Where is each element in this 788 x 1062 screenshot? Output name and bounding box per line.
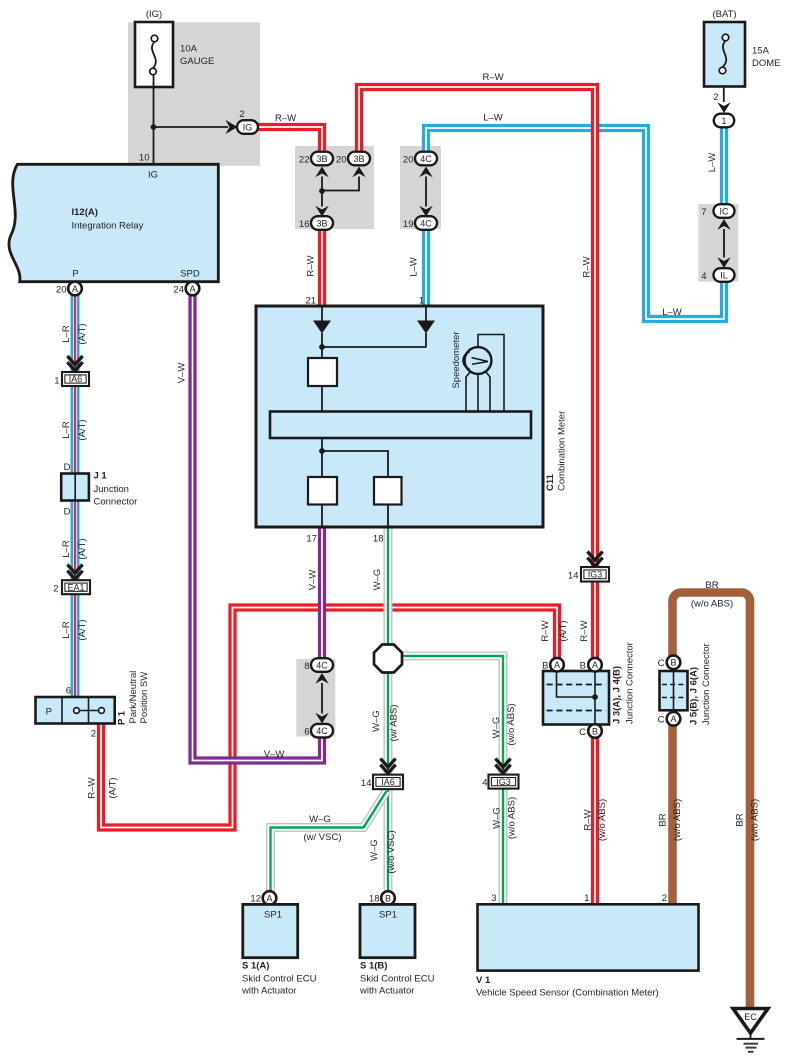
- svg-text:Connector: Connector: [94, 497, 138, 508]
- connector EA1 pin 2: [62, 580, 90, 594]
- svg-text:IG3: IG3: [496, 777, 511, 787]
- svg-text:B: B: [580, 661, 586, 672]
- pin C A bottom: [667, 712, 681, 726]
- connector IG3 pin 4: [489, 775, 519, 789]
- svg-text:R–W: R–W: [583, 809, 594, 830]
- svg-text:Position SW: Position SW: [139, 672, 150, 724]
- svg-text:2: 2: [713, 92, 718, 103]
- svg-text:SPD: SPD: [180, 269, 200, 280]
- svg-text:12: 12: [250, 894, 261, 905]
- wire W-G octagon right to IG3-4 to V1 pin 3: [398, 656, 503, 906]
- svg-text:DOME: DOME: [752, 58, 781, 69]
- svg-text:C: C: [658, 658, 665, 669]
- svg-text:C11: C11: [545, 473, 556, 491]
- connector 4C mid arrows: [315, 673, 328, 724]
- svg-text:1: 1: [721, 116, 726, 126]
- svg-text:IG: IG: [148, 170, 158, 181]
- svg-text:V 1: V 1: [476, 975, 491, 986]
- svg-text:20: 20: [336, 155, 347, 166]
- node 1 oval: [714, 114, 734, 128]
- svg-text:(A/T): (A/T): [77, 419, 88, 440]
- svg-text:4C: 4C: [316, 660, 328, 670]
- svg-text:1: 1: [419, 296, 424, 307]
- svg-text:J 5(B), J 6(A): J 5(B), J 6(A): [689, 667, 700, 725]
- relay pin 20 A: [68, 282, 82, 296]
- svg-text:GAUGE: GAUGE: [180, 56, 214, 67]
- svg-text:R–W: R–W: [540, 620, 551, 641]
- svg-text:(w/o ABS): (w/o ABS): [672, 799, 683, 841]
- svg-text:W–G: W–G: [369, 839, 380, 861]
- svg-text:20: 20: [403, 155, 414, 166]
- junction connector J1: [61, 474, 89, 501]
- svg-text:1: 1: [54, 376, 59, 387]
- svg-text:(w/o VSC): (w/o VSC): [386, 830, 397, 873]
- svg-text:P: P: [46, 707, 52, 718]
- svg-text:14: 14: [568, 571, 579, 582]
- svg-text:R–W: R–W: [275, 113, 296, 124]
- svg-text:C: C: [579, 727, 586, 738]
- connector panel 3B background: [295, 146, 374, 229]
- svg-text:P: P: [72, 269, 78, 280]
- svg-text:J 1: J 1: [94, 471, 108, 482]
- svg-text:SP1: SP1: [264, 910, 282, 921]
- svg-text:4: 4: [482, 778, 487, 789]
- svg-text:Junction: Junction: [94, 484, 129, 495]
- diode symbol at pin 1: [417, 306, 435, 348]
- connector IC/IL arrows: [717, 219, 730, 268]
- svg-text:A: A: [554, 660, 560, 670]
- svg-text:L–W: L–W: [707, 153, 718, 173]
- resistor block upper: [308, 358, 337, 386]
- svg-text:18: 18: [373, 534, 384, 545]
- lower links and junction dot: [322, 438, 388, 477]
- svg-text:BR: BR: [735, 813, 746, 826]
- svg-text:BR: BR: [705, 580, 718, 591]
- wire fuse to relay pin 10: [153, 74, 155, 164]
- svg-text:7: 7: [701, 207, 706, 218]
- switch P1 Park/Neutral Position SW: [36, 697, 115, 724]
- octagon splice junction: [374, 645, 402, 673]
- wire branch to IG oval: [154, 126, 229, 128]
- svg-text:B: B: [385, 893, 391, 903]
- svg-text:6: 6: [304, 727, 309, 738]
- svg-text:21: 21: [305, 296, 316, 307]
- svg-text:A: A: [670, 714, 676, 724]
- svg-text:Speedometer: Speedometer: [451, 331, 462, 388]
- ECU S1(A) box: [243, 904, 298, 957]
- svg-text:A: A: [266, 893, 272, 903]
- svg-text:C: C: [658, 715, 665, 726]
- svg-text:L–R: L–R: [61, 621, 72, 639]
- svg-text:S 1(B): S 1(B): [360, 961, 387, 972]
- pin 12 A into S1(A): [263, 891, 277, 905]
- diode symbol at pin 21: [313, 306, 331, 358]
- connector panel 4C mid background: [296, 659, 335, 737]
- wire L-W 4C pin19 to meter pin 1: [422, 226, 430, 312]
- svg-text:2: 2: [662, 893, 667, 904]
- svg-text:Junction Connector: Junction Connector: [701, 643, 712, 725]
- svg-text:S 1(A): S 1(A): [242, 961, 269, 972]
- svg-text:L–W: L–W: [483, 113, 503, 124]
- svg-text:(IG): (IG): [146, 9, 162, 20]
- fuse 15A DOME (BAT): [704, 22, 745, 87]
- svg-text:L–R: L–R: [61, 325, 72, 343]
- svg-text:16: 16: [299, 219, 310, 230]
- svg-text:(w/ ABS): (w/ ABS): [389, 705, 400, 742]
- svg-text:3: 3: [491, 893, 496, 904]
- node 3B pin 20: [348, 152, 370, 166]
- svg-text:Integration Relay: Integration Relay: [72, 221, 144, 232]
- arrowhead into node 1: [717, 102, 730, 113]
- svg-text:4: 4: [701, 271, 706, 282]
- svg-text:(w/o ABS): (w/o ABS): [597, 799, 608, 841]
- svg-text:W–G: W–G: [492, 807, 503, 829]
- svg-text:IA6: IA6: [381, 777, 395, 787]
- wire L-W DOME fuse 1 to IC: [720, 121, 728, 210]
- node 3B pin 16: [311, 216, 333, 230]
- connector IA6 pin 1: [62, 372, 89, 386]
- node IL pin 4: [714, 268, 735, 282]
- wire L-W top loop: 4C pin20 to IC/IL to DOME fuse: [426, 128, 724, 319]
- svg-text:(A/T): (A/T): [108, 777, 119, 798]
- svg-text:W–G: W–G: [372, 569, 383, 591]
- svg-text:4C: 4C: [420, 218, 432, 228]
- svg-text:1: 1: [584, 893, 589, 904]
- ECU S1(B) box: [360, 904, 415, 957]
- svg-text:Combination Meter: Combination Meter: [557, 411, 568, 491]
- node IC pin 7: [714, 204, 735, 218]
- fuse panel (IG) background: [128, 22, 260, 166]
- svg-text:15A: 15A: [752, 46, 770, 57]
- svg-text:(w/o ABS): (w/o ABS): [506, 703, 517, 745]
- svg-text:3B: 3B: [316, 218, 327, 228]
- svg-text:SP1: SP1: [379, 910, 397, 921]
- svg-text:(BAT): (BAT): [712, 9, 736, 20]
- svg-text:A: A: [592, 660, 598, 670]
- svg-text:BR: BR: [658, 813, 669, 826]
- svg-text:(A/T): (A/T): [77, 619, 88, 640]
- svg-text:17: 17: [306, 534, 317, 545]
- svg-text:10: 10: [139, 153, 150, 164]
- svg-text:B: B: [670, 658, 676, 668]
- svg-text:B: B: [542, 661, 548, 672]
- svg-text:2: 2: [239, 109, 244, 120]
- wire fuse to node 1: [723, 87, 725, 102]
- svg-text:Park/Neutral: Park/Neutral: [128, 671, 139, 724]
- svg-text:R–W: R–W: [306, 255, 317, 276]
- wire BR top loop to ground EC: [673, 593, 751, 1010]
- node 4C pin 20: [415, 152, 437, 166]
- node 4C pin 6: [311, 724, 333, 738]
- svg-text:14: 14: [361, 778, 372, 789]
- svg-text:(A/T): (A/T): [558, 620, 569, 641]
- fuse 10A GAUGE (IG): [135, 22, 173, 87]
- svg-text:(w/ VSC): (w/ VSC): [304, 832, 342, 843]
- pin C B top: [667, 656, 681, 670]
- svg-text:IG: IG: [243, 122, 253, 132]
- combination meter C11 box: [256, 306, 543, 527]
- svg-text:A: A: [189, 284, 195, 294]
- arrow into IG3-4: [495, 759, 510, 774]
- connector 3B arrows and links: [315, 167, 365, 217]
- svg-text:20: 20: [56, 285, 67, 296]
- svg-text:3B: 3B: [316, 154, 327, 164]
- svg-text:V–W: V–W: [264, 749, 285, 760]
- svg-text:J 3(A), J 4(B): J 3(A), J 4(B): [612, 666, 623, 724]
- speedometer symbol: [463, 335, 504, 413]
- svg-text:IC: IC: [720, 206, 730, 216]
- wire R-W P1 pin2 loop to junction connector B-A: [101, 608, 557, 828]
- svg-text:10A: 10A: [180, 44, 198, 55]
- node 3B pin 22: [311, 152, 333, 166]
- wire W-G meter pin18 to octagon: [384, 525, 393, 650]
- svg-text:R–W: R–W: [582, 256, 593, 277]
- svg-text:22: 22: [299, 155, 310, 166]
- arrow into IG3-14: [587, 552, 602, 567]
- wire BR junction connector A to V1 pin 2: [668, 722, 677, 906]
- relay I12(A) Integration Relay box: [9, 164, 218, 281]
- sensor V1 Vehicle Speed Sensor box: [478, 904, 699, 970]
- pin C B bottom: [588, 724, 602, 738]
- node 4C pin 19: [415, 216, 437, 230]
- svg-text:B: B: [592, 726, 598, 736]
- svg-text:IG3: IG3: [588, 570, 603, 580]
- svg-text:3B: 3B: [353, 154, 364, 164]
- svg-text:P 1: P 1: [117, 710, 128, 725]
- svg-text:I12(A): I12(A): [72, 207, 98, 218]
- svg-text:Skid Control ECU: Skid Control ECU: [242, 974, 317, 985]
- pin B A right: [588, 658, 602, 672]
- svg-text:D: D: [64, 462, 71, 473]
- connector 4C arrows: [419, 167, 432, 217]
- pin 18 B into S1(B): [381, 891, 395, 905]
- wire V-W relay SPD pin24 to 4C pin6: [193, 293, 323, 761]
- svg-text:A: A: [72, 284, 78, 294]
- ground EC symbol: [733, 1009, 768, 1052]
- connector panel 4C top background: [400, 146, 441, 229]
- svg-text:W–G: W–G: [491, 717, 502, 739]
- svg-text:R–W: R–W: [482, 72, 503, 83]
- junction dot and link: [322, 346, 426, 348]
- resistor block lower right: [374, 477, 402, 505]
- wire R-W fuse IG to 3B pin22: [258, 127, 322, 153]
- svg-text:D: D: [64, 507, 71, 518]
- wire W-G branch w/VSC to SP1-A pin 12: [271, 791, 387, 893]
- arrow into EA1: [67, 565, 82, 580]
- pin B A left: [550, 658, 564, 672]
- svg-text:18: 18: [369, 894, 380, 905]
- wire V-W 4C pin8 to meter pin 17: [318, 525, 326, 667]
- svg-text:IL: IL: [720, 270, 728, 280]
- svg-text:L–R: L–R: [61, 540, 72, 558]
- svg-text:with Actuator: with Actuator: [359, 986, 414, 997]
- svg-text:(A/T): (A/T): [77, 538, 88, 559]
- connector IG3 pin 14: [581, 567, 609, 582]
- svg-text:W–G: W–G: [371, 710, 382, 732]
- junction connector J3(A) J4(B) box: [543, 671, 609, 725]
- svg-text:(w/o ABS): (w/o ABS): [507, 797, 518, 839]
- wire L-R relay pin20 to P1 pin 6: [71, 293, 80, 699]
- svg-text:24: 24: [173, 285, 184, 296]
- arrow into IA6-14: [380, 759, 395, 774]
- connector panel IC/IL background: [698, 204, 738, 282]
- wire R-W long: 3B pin20 to IG3 to junction connector to V1 pin 1: [359, 87, 595, 906]
- svg-text:L–R: L–R: [61, 421, 72, 439]
- junction dot at fuse branch: [151, 124, 157, 130]
- svg-text:2: 2: [53, 584, 58, 595]
- svg-text:4C: 4C: [316, 726, 328, 736]
- svg-text:Vehicle Speed Sensor (Combinat: Vehicle Speed Sensor (Combination Meter): [476, 988, 659, 999]
- relay pin 24 A: [186, 282, 200, 296]
- wire W-G octagon to IA6 to SP1-B pin 18: [384, 666, 393, 893]
- svg-text:L–W: L–W: [662, 307, 682, 318]
- internal bus bar: [270, 412, 531, 439]
- arrow into IA6: [67, 356, 82, 371]
- svg-text:19: 19: [403, 219, 414, 230]
- svg-text:(A/T): (A/T): [77, 323, 88, 344]
- svg-text:2: 2: [91, 729, 96, 740]
- svg-text:6: 6: [66, 686, 71, 697]
- svg-text:R–W: R–W: [579, 620, 590, 641]
- svg-text:with Actuator: with Actuator: [241, 986, 296, 997]
- wire R-W 3B pin16 to meter pin 21: [318, 226, 326, 312]
- junction connector J5(B) J6(A) box: [660, 671, 688, 710]
- svg-text:EA1: EA1: [67, 582, 84, 592]
- arrowhead into IG oval: [226, 120, 238, 134]
- svg-text:W–G: W–G: [309, 814, 331, 825]
- svg-text:Skid Control ECU: Skid Control ECU: [360, 974, 435, 985]
- svg-text:V–W: V–W: [308, 570, 319, 591]
- svg-text:EC: EC: [744, 1012, 757, 1022]
- node 4C pin 8: [311, 658, 333, 672]
- svg-text:V–W: V–W: [177, 363, 188, 384]
- node IG oval: [237, 120, 258, 134]
- svg-text:4C: 4C: [420, 154, 432, 164]
- svg-text:(w/o ABS): (w/o ABS): [691, 599, 733, 610]
- connector IA6 pin 14: [373, 775, 403, 790]
- svg-text:Junction Connector: Junction Connector: [625, 642, 636, 724]
- svg-text:IA6: IA6: [69, 374, 83, 384]
- resistor block lower left: [308, 477, 337, 505]
- svg-text:R–W: R–W: [87, 777, 98, 798]
- svg-text:(w/o ABS): (w/o ABS): [750, 799, 761, 841]
- svg-text:L–W: L–W: [409, 257, 420, 277]
- svg-text:8: 8: [304, 661, 309, 672]
